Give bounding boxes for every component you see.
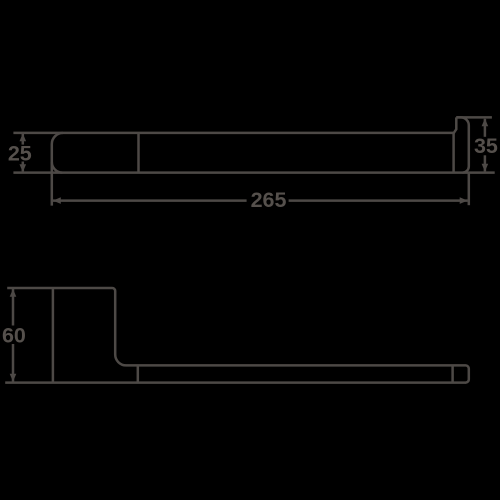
svg-text:60: 60: [2, 323, 26, 347]
svg-text:265: 265: [251, 188, 287, 212]
svg-text:35: 35: [474, 134, 498, 158]
svg-text:25: 25: [8, 141, 32, 165]
